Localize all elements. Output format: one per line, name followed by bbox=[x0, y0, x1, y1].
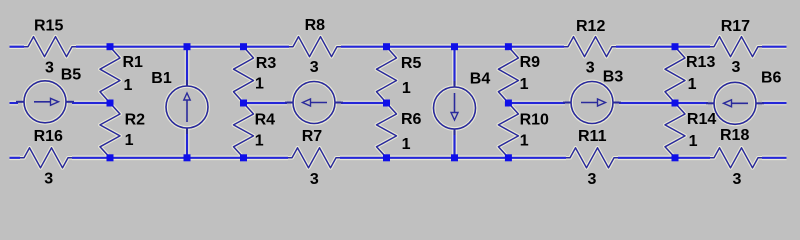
resistor R2 bbox=[100, 103, 120, 158]
wire B4 top pin bbox=[452, 47, 457, 88]
resistor R4 bbox=[234, 103, 254, 158]
resistor R10 bbox=[498, 103, 518, 158]
resistor R14 bbox=[665, 103, 685, 158]
current source B5 bbox=[16, 81, 74, 123]
svg-text:3: 3 bbox=[45, 60, 54, 77]
svg-text:B3: B3 bbox=[603, 69, 624, 86]
wire node J to B3 bbox=[508, 101, 565, 106]
svg-text:B5: B5 bbox=[61, 66, 82, 83]
label R2 bbox=[125, 111, 146, 128]
value 3 of R15 bbox=[45, 60, 54, 77]
value 3 of R16 bbox=[44, 170, 53, 187]
junction node top of R5 bbox=[383, 43, 390, 50]
svg-text:R17: R17 bbox=[721, 18, 750, 35]
value 1 of R4 bbox=[255, 132, 264, 149]
junction node H mid R3-R4 bbox=[240, 100, 247, 107]
current source B4 bbox=[434, 81, 476, 135]
junction node I mid R5-R6 bbox=[383, 100, 390, 107]
value 3 of R17 bbox=[732, 59, 741, 76]
value 3 of R12 bbox=[586, 60, 595, 77]
wire top rail left stub bbox=[10, 44, 25, 49]
resistor R5 bbox=[377, 47, 397, 103]
svg-text:1: 1 bbox=[124, 77, 133, 94]
wire node K to B6 bbox=[675, 101, 708, 106]
svg-text:R18: R18 bbox=[720, 127, 749, 144]
svg-text:R9: R9 bbox=[520, 54, 541, 71]
svg-text:1: 1 bbox=[688, 76, 697, 93]
wire bottom rail R16 to node D bbox=[72, 156, 288, 161]
svg-text:3: 3 bbox=[44, 170, 53, 187]
wire top rail R12 to node C bbox=[616, 44, 710, 49]
wire top rail R8 to node B bbox=[341, 44, 564, 49]
svg-text:1: 1 bbox=[402, 80, 411, 97]
svg-text:R14: R14 bbox=[687, 111, 716, 128]
svg-text:R13: R13 bbox=[686, 54, 715, 71]
resistor R8 bbox=[289, 37, 341, 57]
junction node A top of R1 bbox=[107, 43, 114, 50]
svg-text:R8: R8 bbox=[305, 17, 326, 34]
label R16 bbox=[34, 128, 63, 145]
label R12 bbox=[576, 18, 605, 35]
junction node bottom of R4 bbox=[240, 154, 247, 161]
svg-text:B1: B1 bbox=[151, 70, 172, 87]
junction node K mid R13-R14 bbox=[672, 100, 679, 107]
resistor R9 bbox=[498, 47, 518, 103]
label R15 bbox=[34, 17, 63, 34]
value 1 of R14 bbox=[689, 133, 698, 150]
junction node top of B4 bbox=[451, 43, 458, 50]
value 1 of R9 bbox=[520, 76, 529, 93]
wire B1 top pin bbox=[185, 47, 190, 87]
label R11 bbox=[578, 128, 607, 145]
value 1 of R10 bbox=[520, 132, 529, 149]
junction node G mid R1-R2 bbox=[107, 100, 114, 107]
junction node top of B1 bbox=[184, 43, 191, 50]
svg-text:1: 1 bbox=[520, 76, 529, 93]
current source B6 bbox=[706, 82, 764, 124]
junction node bottom of R2 bbox=[107, 154, 114, 161]
svg-text:R2: R2 bbox=[125, 111, 146, 128]
resistor R16 bbox=[20, 148, 72, 168]
resistor R1 bbox=[100, 47, 120, 103]
wire bottom rail R7 to node E bbox=[340, 156, 566, 161]
svg-text:R12: R12 bbox=[576, 18, 605, 35]
resistor R12 bbox=[564, 37, 616, 57]
svg-text:3: 3 bbox=[310, 59, 319, 76]
current source B2 (unlabeled) bbox=[285, 82, 343, 124]
svg-text:B4: B4 bbox=[470, 71, 491, 88]
wire B1 bottom pin bbox=[185, 127, 190, 158]
svg-text:R5: R5 bbox=[401, 55, 422, 72]
wire B3 to node K bbox=[619, 101, 675, 106]
wire bottom rail left stub bbox=[10, 156, 21, 161]
label R14 bbox=[687, 111, 716, 128]
label R4 bbox=[255, 111, 276, 128]
resistor R17 bbox=[710, 37, 762, 57]
label R13 bbox=[686, 54, 715, 71]
svg-text:1: 1 bbox=[255, 75, 264, 92]
label R5 bbox=[401, 55, 422, 72]
label B5 bbox=[61, 66, 82, 83]
value 3 of R8 bbox=[310, 59, 319, 76]
value 3 of R18 bbox=[733, 171, 742, 188]
label B6 bbox=[761, 69, 782, 86]
svg-text:1: 1 bbox=[689, 133, 698, 150]
label R6 bbox=[401, 111, 422, 128]
svg-text:R7: R7 bbox=[302, 128, 323, 145]
wire top rail R15 to node A bbox=[76, 44, 289, 49]
wire bottom rail right stub bbox=[762, 156, 787, 161]
svg-text:R4: R4 bbox=[255, 111, 276, 128]
svg-text:3: 3 bbox=[586, 60, 595, 77]
svg-text:R3: R3 bbox=[256, 55, 277, 72]
svg-text:3: 3 bbox=[310, 171, 319, 188]
resistor R18 bbox=[710, 148, 762, 168]
svg-text:1: 1 bbox=[125, 132, 134, 149]
junction node J mid R9-R10 bbox=[505, 100, 512, 107]
value 1 of R3 bbox=[255, 75, 264, 92]
value 1 of R2 bbox=[125, 132, 134, 149]
junction node top of R3 bbox=[240, 43, 247, 50]
value 3 of R11 bbox=[588, 171, 597, 188]
value 1 of R13 bbox=[688, 76, 697, 93]
wire top rail right stub bbox=[762, 44, 787, 49]
current source B1 bbox=[166, 80, 208, 134]
svg-text:3: 3 bbox=[588, 171, 597, 188]
svg-text:1: 1 bbox=[520, 132, 529, 149]
label R7 bbox=[302, 128, 323, 145]
value 1 of R1 bbox=[124, 77, 133, 94]
wire B2 to node I bbox=[341, 101, 387, 106]
label B4 bbox=[470, 71, 491, 88]
svg-text:B6: B6 bbox=[761, 69, 782, 86]
svg-text:3: 3 bbox=[733, 171, 742, 188]
junction node top of R13 bbox=[672, 43, 679, 50]
junction node top of R9 bbox=[505, 43, 512, 50]
label R10 bbox=[520, 111, 549, 128]
resistor R6 bbox=[377, 103, 397, 158]
svg-text:R11: R11 bbox=[578, 128, 607, 145]
resistor R13 bbox=[665, 47, 685, 103]
junction node bottom of R10 bbox=[505, 154, 512, 161]
resistor R3 bbox=[234, 47, 254, 103]
label R18 bbox=[720, 127, 749, 144]
junction node bottom of B4 bbox=[451, 154, 458, 161]
wire B4 bottom pin bbox=[452, 128, 457, 158]
resistor R11 bbox=[566, 148, 618, 168]
label R1 bbox=[123, 54, 144, 71]
svg-text:R10: R10 bbox=[520, 111, 549, 128]
current source B3 bbox=[563, 82, 621, 124]
svg-text:3: 3 bbox=[732, 59, 741, 76]
wire B5 to node G bbox=[72, 101, 110, 106]
label R3 bbox=[256, 55, 277, 72]
junction node bottom of B1 bbox=[184, 154, 191, 161]
svg-text:R15: R15 bbox=[34, 17, 63, 34]
wire node H to B2 bbox=[244, 101, 288, 106]
wire bottom rail R11 to node F bbox=[618, 156, 710, 161]
resistor R15 bbox=[24, 37, 76, 57]
label R17 bbox=[721, 18, 750, 35]
label R8 bbox=[305, 17, 326, 34]
junction node bottom of R14 bbox=[672, 154, 679, 161]
value 1 of R5 bbox=[402, 80, 411, 97]
resistor R7 bbox=[288, 148, 340, 168]
wire B6 to right stub bbox=[762, 101, 787, 106]
value 1 of R6 bbox=[402, 136, 411, 153]
wire middle left stub to B5 bbox=[10, 101, 19, 106]
value 3 of R7 bbox=[310, 171, 319, 188]
svg-text:R6: R6 bbox=[401, 111, 422, 128]
svg-text:1: 1 bbox=[255, 132, 264, 149]
svg-text:R16: R16 bbox=[34, 128, 63, 145]
label B1 bbox=[151, 70, 172, 87]
junction node bottom of R6 bbox=[383, 154, 390, 161]
label B3 bbox=[603, 69, 624, 86]
label R9 bbox=[520, 54, 541, 71]
svg-text:R1: R1 bbox=[123, 54, 144, 71]
svg-text:1: 1 bbox=[402, 136, 411, 153]
